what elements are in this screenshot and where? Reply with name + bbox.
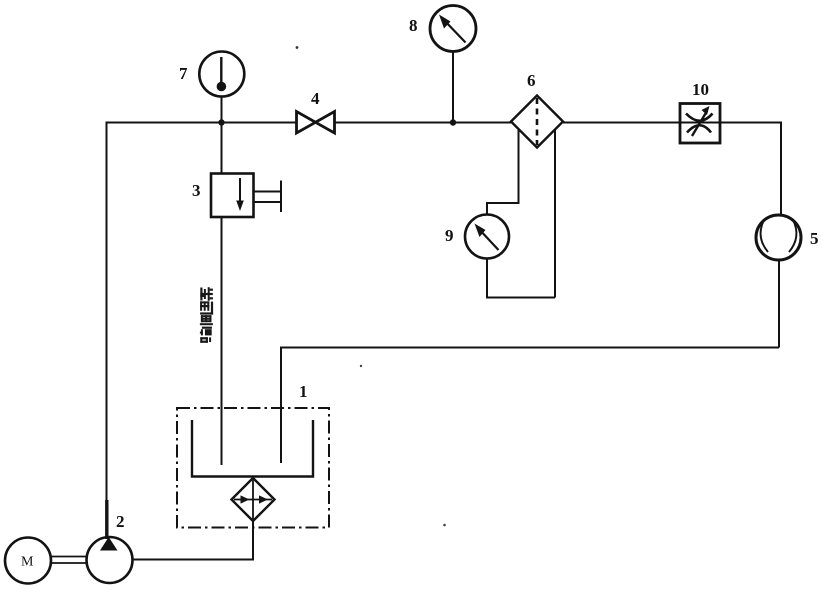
node junction at thermometer tap bbox=[218, 119, 224, 125]
pressure reducing valve 3 feed wire bbox=[221, 123, 223, 174]
svg-text:4: 4 bbox=[311, 89, 320, 108]
wire long return line bbox=[281, 348, 779, 464]
valve 4 (shut-off valve bowtie) bbox=[297, 112, 335, 134]
throttle valve 10 box bbox=[680, 104, 720, 144]
svg-text:9: 9 bbox=[445, 226, 454, 245]
pump 2 bbox=[87, 537, 133, 583]
flow meter 5 bbox=[756, 215, 801, 260]
wire suction line from strainer to pump bbox=[132, 521, 253, 560]
wire pump feed heavy segment bbox=[105, 500, 108, 539]
tank 1 dash-dot enclosure bbox=[177, 408, 329, 528]
valve 3 box bbox=[211, 174, 254, 218]
wire return pipe into tank bbox=[280, 348, 282, 464]
svg-text:2: 2 bbox=[116, 512, 125, 531]
motor M bbox=[5, 538, 51, 584]
wire main horizontal line middle segment bbox=[335, 122, 511, 124]
wire bypass line down to tank bbox=[221, 217, 223, 465]
svg-text:1: 1 bbox=[299, 382, 308, 401]
svg-text:10: 10 bbox=[692, 80, 709, 99]
svg-text:5: 5 bbox=[810, 229, 819, 248]
strainer filter diamond below tank bbox=[232, 478, 275, 521]
wire flow meter outlet down bbox=[778, 260, 780, 348]
coupling shaft lines bbox=[50, 557, 88, 564]
tank 1 open reservoir bbox=[192, 420, 313, 477]
wire main horizontal line left segment bbox=[107, 122, 297, 124]
wire filter upstream tap down-jog to gauge 9 bbox=[487, 130, 519, 215]
filter F6 diamond bbox=[511, 96, 563, 148]
valve 3 pilot lines to stop bbox=[254, 181, 282, 213]
wire filter downstream tap down bbox=[554, 130, 556, 298]
svg-text:8: 8 bbox=[409, 16, 418, 35]
wire left vertical line to pump bbox=[106, 122, 108, 540]
svg-text:M: M bbox=[21, 555, 34, 570]
svg-text:3: 3 bbox=[192, 181, 201, 200]
wire main horizontal line right segment bbox=[563, 122, 781, 124]
svg-text:7: 7 bbox=[179, 64, 188, 83]
pressure gauge U8 stem bbox=[452, 52, 454, 123]
wire right corner down to flow meter bbox=[780, 122, 782, 216]
speck marks bbox=[296, 46, 299, 49]
pressure gauge U9 bbox=[465, 215, 509, 259]
thermometer U7 stem connector bbox=[221, 97, 223, 123]
node junction at gauge 8 tap bbox=[450, 119, 456, 125]
label bypass text 旁通油路 (rotated glyph blocks) bbox=[200, 287, 213, 343]
wire gauge 9 bottom loop bbox=[487, 259, 555, 298]
svg-text:6: 6 bbox=[527, 71, 536, 90]
pressure gauge U8 bbox=[430, 6, 476, 52]
thermometer U7 bbox=[199, 52, 244, 97]
